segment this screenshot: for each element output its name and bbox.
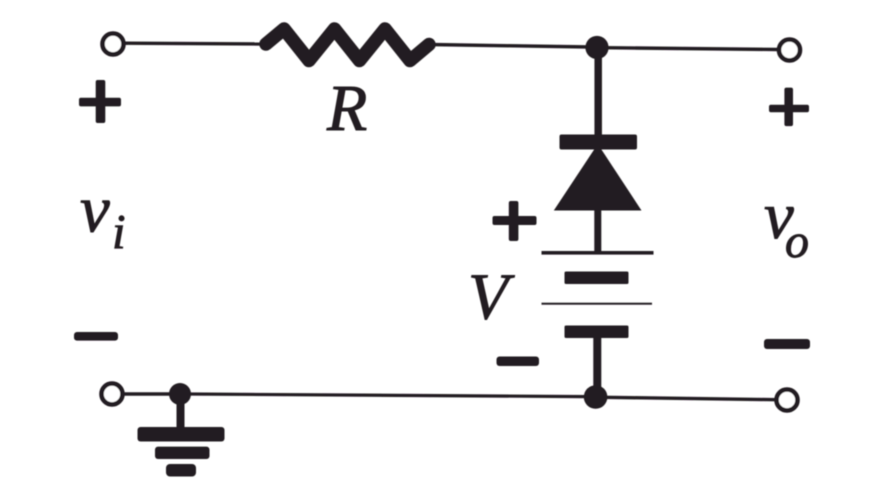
plus sign battery bbox=[493, 201, 537, 241]
minus sign battery bbox=[497, 357, 540, 367]
battery V plate 4 short thick bbox=[565, 326, 629, 339]
wire top node down to diode bbox=[594, 48, 602, 138]
terminal BR bbox=[777, 390, 798, 411]
node B bottom junction bbox=[584, 385, 608, 409]
wire resistor to top node bbox=[429, 45, 590, 48]
wire battery to bottom node bbox=[593, 337, 601, 397]
plus sign output vo bbox=[769, 88, 809, 127]
ground bbox=[138, 398, 225, 477]
wire bottom node to terminal BR bbox=[604, 397, 776, 399]
node G ground junction bbox=[169, 383, 191, 405]
plus sign input vi bbox=[79, 80, 121, 123]
wire terminal BL to ground node bbox=[122, 392, 172, 395]
svg-text:o: o bbox=[785, 215, 809, 268]
label vi bbox=[80, 173, 126, 260]
minus sign output vo bbox=[764, 339, 810, 349]
battery V plate 1 long bbox=[542, 251, 654, 255]
battery V plate 2 short thick bbox=[565, 272, 629, 285]
wire top-left segment bbox=[123, 42, 268, 46]
terminal TR bbox=[779, 40, 800, 61]
minus sign input vi bbox=[74, 332, 118, 341]
svg-text:V: V bbox=[468, 261, 515, 334]
resistor R bbox=[266, 29, 429, 61]
wire diode to battery bbox=[594, 206, 601, 253]
terminal TL bbox=[103, 34, 124, 55]
label vo bbox=[764, 179, 809, 268]
svg-text:i: i bbox=[112, 204, 126, 259]
battery V plate 3 long thin bbox=[542, 303, 653, 305]
svg-text:v: v bbox=[80, 173, 110, 247]
diode D1 cathode bar bbox=[560, 135, 638, 150]
wire top node to terminal TR bbox=[604, 48, 778, 50]
wire ground node to bottom node bbox=[188, 394, 586, 397]
diode D1 triangle bbox=[554, 144, 642, 211]
svg-text:R: R bbox=[326, 72, 367, 145]
node A top junction bbox=[585, 36, 608, 59]
terminal BL bbox=[102, 384, 123, 405]
